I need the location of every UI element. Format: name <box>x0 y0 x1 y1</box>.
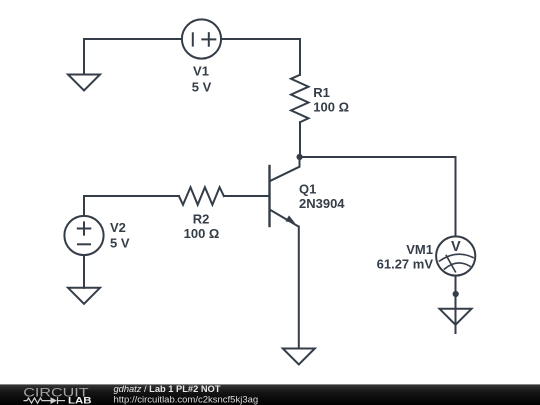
voltmeter VM1 <box>436 236 475 275</box>
wire <box>83 196 85 216</box>
transistor Q1 <box>270 157 300 227</box>
wire <box>455 276 457 333</box>
svg-text:5 V: 5 V <box>110 236 130 251</box>
svg-text:LAB: LAB <box>68 396 92 405</box>
wire <box>221 39 300 75</box>
ground <box>68 288 100 304</box>
svg-text:V: V <box>451 239 461 255</box>
voltage source V1 <box>182 19 221 58</box>
svg-text:V1: V1 <box>193 64 209 79</box>
resistor R1 <box>291 75 309 122</box>
svg-text:Q1: Q1 <box>299 182 316 197</box>
node VM1 ground junction <box>453 291 459 297</box>
svg-text:R2: R2 <box>193 212 210 227</box>
svg-text:R1: R1 <box>313 85 330 100</box>
wire <box>83 255 85 287</box>
svg-text:V2: V2 <box>110 220 126 235</box>
svg-text:gdhatz / Lab 1 PL#2 NOT: gdhatz / Lab 1 PL#2 NOT <box>114 384 221 394</box>
svg-text:2N3904: 2N3904 <box>299 196 345 211</box>
wire <box>84 39 182 75</box>
wire <box>84 195 179 197</box>
wire <box>298 227 300 349</box>
svg-text:http://circuitlab.com/c2ksncf5: http://circuitlab.com/c2ksncf5kj3ag <box>114 394 259 405</box>
footer caption <box>114 384 259 405</box>
wire <box>299 122 301 157</box>
voltage source V2 <box>64 216 103 255</box>
node collector junction <box>297 154 303 160</box>
ground <box>440 309 472 325</box>
svg-text:5 V: 5 V <box>192 80 212 95</box>
ground <box>68 75 100 91</box>
wire <box>300 157 456 236</box>
svg-text:100 Ω: 100 Ω <box>313 100 349 115</box>
wire <box>224 195 270 197</box>
svg-text:61.27 mV: 61.27 mV <box>377 257 434 272</box>
resistor R2 <box>179 187 224 205</box>
ground <box>283 349 315 365</box>
svg-text:100 Ω: 100 Ω <box>184 226 220 241</box>
logo CircuitLab <box>23 386 91 405</box>
svg-text:VM1: VM1 <box>406 242 433 257</box>
